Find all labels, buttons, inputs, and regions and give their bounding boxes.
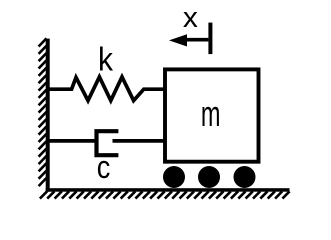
- svg-text:k: k: [98, 41, 113, 78]
- mass m box: [165, 69, 259, 161]
- displacement arrow x: shaft: [185, 38, 209, 42]
- wall hatching: [39, 38, 47, 186]
- wheel 3: [234, 166, 256, 188]
- displacement arrow x: head: [169, 34, 187, 46]
- wheel 2: [198, 166, 220, 188]
- ground hatching: [40, 191, 290, 198]
- svg-text:c: c: [97, 149, 111, 185]
- damper cylinder C-shape: [97, 131, 119, 155]
- svg-text:x: x: [183, 2, 199, 34]
- ground: [46, 188, 290, 192]
- spring k: [49, 77, 165, 101]
- displacement arrow x: reference bar: [208, 23, 212, 54]
- damper rod left: [49, 139, 97, 143]
- wall: [46, 39, 50, 192]
- damper piston rod: [113, 139, 165, 143]
- svg-text:m: m: [201, 93, 221, 134]
- wheel 1: [163, 166, 185, 188]
